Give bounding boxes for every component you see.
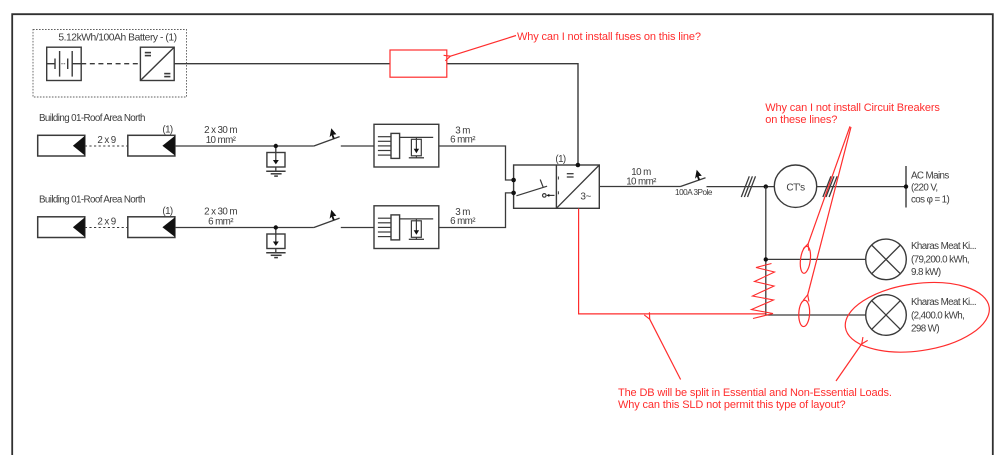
svg-text:The DB will be split in Essent: The DB will be split in Essential and No… — [618, 387, 892, 399]
svg-text:(1): (1) — [162, 125, 173, 136]
svg-text:(79,200.0 kWh,: (79,200.0 kWh, — [911, 254, 969, 265]
svg-text:(220 V,: (220 V, — [911, 183, 938, 194]
svg-text:(1): (1) — [555, 154, 566, 165]
svg-text:100A 3Pole: 100A 3Pole — [675, 188, 713, 197]
svg-text:6 mm²: 6 mm² — [450, 216, 476, 227]
svg-text:3~: 3~ — [580, 191, 591, 202]
svg-text:Kharas Meat Ki...: Kharas Meat Ki... — [911, 241, 976, 252]
svg-text:6 mm²: 6 mm² — [208, 216, 234, 227]
svg-text:Building 01-Roof Area North: Building 01-Roof Area North — [39, 195, 145, 206]
svg-text:9.8 kW): 9.8 kW) — [911, 267, 941, 278]
svg-text:10 mm²: 10 mm² — [206, 135, 237, 146]
svg-text:(2,400.0 kWh,: (2,400.0 kWh, — [911, 311, 964, 322]
svg-text:AC Mains: AC Mains — [911, 171, 949, 182]
svg-text:2 x 9: 2 x 9 — [97, 217, 115, 228]
svg-text:Kharas Meat Ki...: Kharas Meat Ki... — [911, 297, 976, 308]
svg-text:2 x 9: 2 x 9 — [97, 135, 115, 146]
svg-text:cos φ = 1): cos φ = 1) — [911, 195, 950, 206]
svg-text:on these lines?: on these lines? — [765, 114, 837, 126]
svg-text:298 W): 298 W) — [911, 323, 939, 334]
svg-text:5.12kWh/100Ah Battery - (1): 5.12kWh/100Ah Battery - (1) — [58, 33, 176, 44]
svg-text:CT's: CT's — [786, 182, 805, 193]
svg-text:Why can I not install fuses on: Why can I not install fuses on this line… — [517, 31, 701, 43]
svg-text:Why can I not install Circuit: Why can I not install Circuit Breakers — [765, 102, 940, 114]
svg-text:Building 01-Roof Area North: Building 01-Roof Area North — [39, 113, 145, 124]
svg-text:Why can this SLD not permit th: Why can this SLD not permit this type of… — [618, 399, 845, 411]
svg-text:6 mm²: 6 mm² — [450, 135, 476, 146]
svg-text:(1): (1) — [162, 206, 173, 217]
